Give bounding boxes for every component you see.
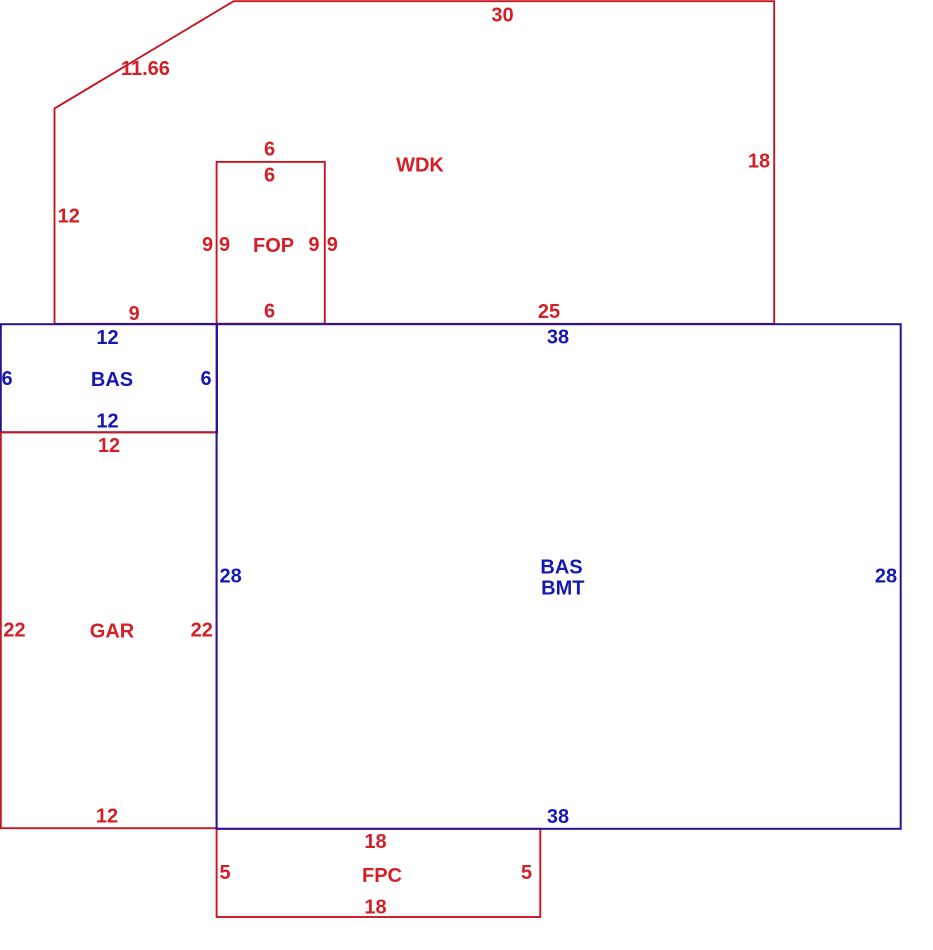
svg-text:6: 6 bbox=[200, 368, 211, 390]
svg-text:28: 28 bbox=[875, 565, 897, 587]
svg-text:25: 25 bbox=[538, 301, 560, 323]
svg-text:18: 18 bbox=[748, 150, 770, 172]
svg-text:BAS: BAS bbox=[91, 369, 133, 391]
svg-text:38: 38 bbox=[547, 327, 569, 349]
svg-text:9: 9 bbox=[129, 303, 140, 325]
svg-text:6: 6 bbox=[1, 368, 12, 390]
svg-text:GAR: GAR bbox=[90, 621, 135, 643]
svg-text:18: 18 bbox=[364, 896, 386, 918]
svg-text:WDK: WDK bbox=[396, 155, 444, 177]
svg-text:5: 5 bbox=[521, 862, 532, 884]
svg-text:9: 9 bbox=[219, 234, 230, 256]
svg-text:12: 12 bbox=[58, 205, 80, 227]
svg-text:9: 9 bbox=[308, 234, 319, 256]
svg-text:18: 18 bbox=[364, 831, 386, 853]
svg-text:6: 6 bbox=[264, 138, 275, 160]
svg-text:6: 6 bbox=[264, 164, 275, 186]
svg-text:9: 9 bbox=[202, 234, 213, 256]
svg-text:30: 30 bbox=[491, 4, 513, 26]
svg-text:5: 5 bbox=[219, 862, 230, 884]
svg-text:28: 28 bbox=[219, 565, 241, 587]
svg-text:12: 12 bbox=[96, 805, 118, 827]
svg-text:22: 22 bbox=[3, 620, 25, 642]
svg-text:6: 6 bbox=[264, 300, 275, 322]
svg-text:FOP: FOP bbox=[253, 235, 294, 257]
svg-text:12: 12 bbox=[96, 327, 118, 349]
svg-text:9: 9 bbox=[327, 234, 338, 256]
svg-text:38: 38 bbox=[547, 806, 569, 828]
svg-text:22: 22 bbox=[191, 620, 213, 642]
svg-text:11.66: 11.66 bbox=[121, 58, 170, 80]
svg-text:BAS: BAS bbox=[540, 556, 582, 578]
svg-text:BMT: BMT bbox=[541, 578, 584, 600]
svg-text:FPC: FPC bbox=[362, 865, 402, 887]
svg-text:12: 12 bbox=[98, 435, 120, 457]
svg-text:12: 12 bbox=[96, 410, 118, 432]
